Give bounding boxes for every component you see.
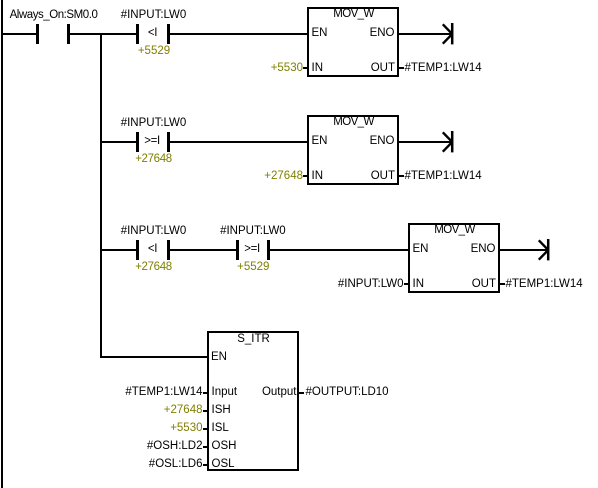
output arrow rung1 bbox=[439, 21, 455, 47]
value label +27648 (CMP2 operand) bbox=[135, 154, 172, 166]
output arrow rung2 bbox=[439, 129, 455, 155]
wire stub U4 OSL bbox=[203, 464, 208, 466]
wire stub U3 OUT bbox=[500, 283, 505, 285]
comparator contact CMP1 (#INPUT:LW0 &lt; +5529) bbox=[136, 24, 170, 44]
pin U1 EN bbox=[312, 28, 328, 40]
pin U2 OUT bbox=[371, 171, 395, 183]
comparator contact CMP4 (#INPUT:LW0 &gt;= +5529) bbox=[236, 240, 270, 260]
pin U1 OUT bbox=[371, 63, 395, 75]
value label +27648 (CMP3 operand) bbox=[135, 262, 172, 274]
pin U4 ISL bbox=[212, 423, 229, 435]
pin U2 EN bbox=[312, 136, 328, 148]
label #TEMP1:LW14 (U3 OUT operand) bbox=[506, 279, 583, 291]
label #OSH:LD2 (U4 OSH operand) bbox=[147, 441, 203, 453]
value label +5529 (CMP1 operand) bbox=[138, 46, 170, 58]
pin U4 OSL bbox=[212, 459, 235, 471]
comparator contact CMP2 (#INPUT:LW0 &gt;= +27648) bbox=[136, 132, 170, 152]
contact C1 Always_On:SM0.0 (normally open) bbox=[36, 24, 70, 44]
wire rung1: CMP1 to U1 EN bbox=[169, 33, 307, 35]
pin U4 ISH bbox=[212, 405, 231, 417]
wire rung3: CMP4 to U3 EN bbox=[269, 249, 408, 251]
operator label CMP3 bbox=[148, 244, 157, 256]
value label +5529 (CMP4 operand) bbox=[237, 262, 269, 274]
function block U3 MOV_W bbox=[408, 223, 500, 293]
pin U3 EN bbox=[413, 244, 429, 256]
label #TEMP1:LW14 (U4 Input operand) bbox=[125, 387, 202, 399]
title U4 S_ITR bbox=[237, 334, 270, 346]
wire rung1: U1 ENO to output arrow bbox=[399, 33, 452, 35]
label rung3 #INPUT:LW0 (first) bbox=[121, 226, 187, 238]
function block U2 MOV_W bbox=[307, 115, 399, 185]
wire stub U2 OUT bbox=[399, 175, 404, 177]
pin U4 OSH bbox=[212, 441, 237, 453]
wire rung3: branch to comparator CMP3 bbox=[102, 249, 136, 251]
label Always_On:SM0.0 bbox=[10, 10, 98, 22]
wire stub U4 Output bbox=[299, 392, 304, 394]
wire rung3: CMP3 to CMP4 bbox=[169, 249, 236, 251]
label rung2 #INPUT:LW0 bbox=[121, 118, 187, 130]
wire stub U3 IN bbox=[404, 283, 409, 285]
comparator contact CMP3 (#INPUT:LW0 &lt; +27648) bbox=[136, 240, 170, 260]
function block U4 S_ITR bbox=[207, 331, 299, 471]
operator label CMP4 bbox=[244, 244, 260, 256]
label #OUTPUT:LD10 (U4 Output operand) bbox=[306, 387, 389, 399]
function block U1 MOV_W bbox=[307, 7, 399, 77]
pin U2 IN bbox=[312, 171, 324, 183]
title U1 MOV_W bbox=[333, 9, 373, 21]
pin U1 ENO bbox=[370, 28, 395, 40]
wire stub U4 Input bbox=[203, 392, 208, 394]
wire rung1: contact C1 to comparator CMP1 bbox=[69, 33, 136, 35]
wire rung1: rail to contact C1 bbox=[2, 33, 36, 35]
pin U4 Output bbox=[262, 387, 297, 399]
wire rung2: branch to comparator CMP2 bbox=[102, 141, 136, 143]
label #TEMP1:LW14 (U1 OUT operand) bbox=[405, 63, 482, 75]
wire stub U4 OSH bbox=[203, 446, 208, 448]
pin U4 EN bbox=[211, 352, 227, 364]
label rung1 #INPUT:LW0 bbox=[121, 10, 187, 22]
value label +5530 (U1 IN operand) bbox=[271, 63, 303, 75]
wire stub U4 ISH bbox=[203, 410, 208, 412]
label rung3 #INPUT:LW0 (second) bbox=[220, 226, 286, 238]
title U3 MOV_W bbox=[434, 225, 474, 237]
wire stub U2 IN bbox=[303, 175, 308, 177]
output arrow rung3 bbox=[535, 237, 551, 263]
wire rung2: U2 ENO to output arrow bbox=[399, 141, 452, 143]
wire stub U1 IN bbox=[303, 67, 308, 69]
pin U3 ENO bbox=[471, 244, 496, 256]
operator label CMP2 bbox=[144, 136, 160, 148]
pin U3 IN bbox=[413, 279, 425, 291]
label #TEMP1:LW14 (U2 OUT operand) bbox=[405, 171, 482, 183]
left power rail bbox=[1, 0, 3, 488]
pin U2 ENO bbox=[370, 136, 395, 148]
value label +27648 (U4 ISH operand) bbox=[164, 405, 203, 417]
wire rung2: CMP2 to U2 EN bbox=[169, 141, 307, 143]
value label +5530 (U4 ISL operand) bbox=[170, 423, 202, 435]
pin U4 Input bbox=[212, 387, 238, 399]
label #INPUT:LW0 (U3 IN operand) bbox=[338, 279, 404, 291]
value label +27648 (U2 IN operand) bbox=[264, 171, 303, 183]
pin U1 IN bbox=[312, 63, 324, 75]
wire stub U1 OUT bbox=[399, 67, 404, 69]
wire rung4: branch to U4 EN bbox=[100, 356, 207, 358]
pin U3 OUT bbox=[472, 279, 496, 291]
junction node: vertical branch line x=100 bbox=[100, 33, 102, 358]
wire rung3: U3 ENO to output arrow bbox=[500, 249, 548, 251]
label #OSL:LD6 (U4 OSL operand) bbox=[149, 459, 203, 471]
title U2 MOV_W bbox=[333, 117, 373, 129]
wire stub U4 ISL bbox=[203, 428, 208, 430]
operator label CMP1 bbox=[148, 28, 157, 40]
